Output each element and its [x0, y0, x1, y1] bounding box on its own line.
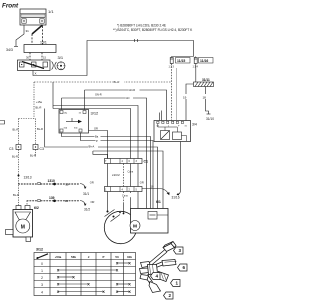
svg-text:2: 2 — [41, 276, 43, 280]
svg-text:3/12: 3/12 — [91, 111, 100, 116]
svg-text:P: P — [103, 255, 105, 259]
svg-text:OR: OR — [90, 180, 94, 184]
svg-text:X: X — [102, 289, 105, 294]
svg-text:C1: C1 — [144, 160, 149, 164]
svg-text:P: P — [96, 139, 98, 143]
svg-text:31/2: 31/2 — [84, 208, 90, 212]
svg-text:X: X — [128, 289, 131, 294]
svg-text:1310: 1310 — [48, 179, 56, 183]
svg-text:+53a: +53a — [55, 255, 62, 259]
svg-text:13/13: 13/13 — [24, 176, 32, 180]
svg-text:Ba: Ba — [95, 135, 99, 139]
svg-text:4: 4 — [41, 291, 43, 295]
svg-text:X: X — [116, 281, 119, 286]
svg-text:Ca-a: Ca-a — [122, 194, 128, 198]
svg-text:1 3 4: 1 3 4 — [193, 66, 199, 69]
svg-text:BL-R: BL-R — [12, 155, 18, 159]
svg-text:X: X — [116, 260, 119, 265]
svg-text:Bh-A: Bh-A — [89, 144, 95, 148]
svg-text:Front: Front — [2, 3, 19, 10]
svg-text:X: X — [128, 281, 131, 286]
svg-text:53b: 53b — [71, 255, 76, 259]
svg-text:X: X — [116, 289, 119, 294]
svg-text:BL-R: BL-R — [36, 105, 42, 109]
svg-text:18: 18 — [203, 96, 207, 100]
svg-text:19: 19 — [183, 96, 187, 100]
svg-text:11/15: 11/15 — [177, 59, 185, 63]
svg-text:J: J — [168, 126, 169, 128]
svg-text:BL-R: BL-R — [13, 193, 19, 197]
svg-text:11/16: 11/16 — [200, 59, 208, 63]
svg-text:1/1: 1/1 — [48, 9, 54, 14]
svg-text:**) B204TC, B30FT, B28080FT FL: **) B204TC, B30FT, B28080FT FL/GS LH2.4,… — [113, 28, 193, 32]
svg-text:X: X — [72, 274, 75, 279]
svg-text:*) B28080FT LH/LCDS, B230 2.4E: *) B28080FT LH/LCDS, B230 2.4E — [117, 24, 166, 28]
svg-text:6/1: 6/1 — [156, 200, 161, 204]
svg-text:6/2: 6/2 — [34, 206, 39, 210]
svg-text:M: M — [21, 224, 25, 230]
svg-text:0: 0 — [41, 262, 43, 266]
svg-text:GN: GN — [126, 96, 130, 100]
svg-text:X: X — [57, 267, 60, 272]
svg-text:3/4: 3/4 — [192, 123, 197, 127]
svg-text:3/1: 3/1 — [58, 55, 64, 60]
svg-text:34/3: 34/3 — [6, 48, 13, 52]
svg-text:M: M — [133, 223, 137, 229]
svg-text:3/12: 3/12 — [36, 248, 43, 252]
svg-text:31/10: 31/10 — [206, 117, 214, 121]
svg-text:31: 31 — [26, 29, 30, 33]
svg-text:+15a: +15a — [36, 100, 42, 104]
svg-text:BL-R: BL-R — [37, 127, 43, 131]
svg-text:X: X — [57, 274, 60, 279]
svg-text:13/14: 13/14 — [112, 173, 120, 177]
svg-text:GN-R: GN-R — [95, 93, 102, 97]
svg-text:C3: C3 — [40, 147, 44, 151]
svg-text:Ca-a: Ca-a — [128, 170, 134, 174]
svg-text:15/1: 15/1 — [40, 41, 47, 45]
svg-text:C3: C3 — [9, 147, 13, 151]
svg-text:31/11: 31/11 — [202, 78, 210, 82]
svg-text:31/1: 31/1 — [83, 192, 89, 196]
svg-text:1 2 3: 1 2 3 — [169, 66, 175, 69]
svg-text:X: X — [116, 267, 119, 272]
svg-text:139: 139 — [49, 196, 55, 200]
svg-text:1: 1 — [41, 269, 43, 273]
svg-text:BL-R: BL-R — [13, 128, 19, 132]
svg-text:OR: OR — [94, 127, 98, 131]
svg-text:3: 3 — [41, 283, 43, 287]
svg-text:X: X — [128, 260, 131, 265]
svg-text:31b: 31b — [127, 255, 132, 259]
svg-text:BL-R: BL-R — [114, 80, 120, 84]
svg-text:GN-R: GN-R — [129, 88, 136, 92]
svg-text:X: X — [57, 289, 60, 294]
svg-text:X: X — [35, 72, 37, 76]
svg-text:OR: OR — [91, 200, 95, 204]
svg-text:X: X — [57, 281, 60, 286]
svg-text:53: 53 — [115, 255, 119, 259]
svg-text:X: X — [87, 281, 90, 286]
svg-text:OR: OR — [140, 180, 144, 184]
svg-text:BL-R: BL-R — [30, 154, 36, 158]
svg-text:31/16: 31/16 — [172, 196, 180, 200]
